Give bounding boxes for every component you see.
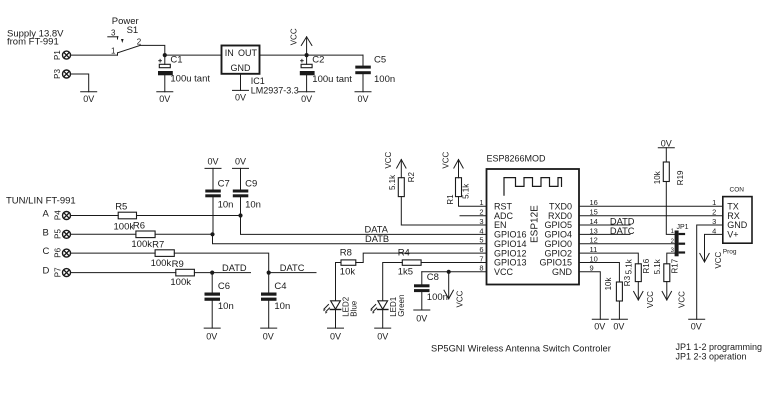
svg-text:0V: 0V [330,332,341,342]
junction A/C9 [238,213,242,217]
svg-text:10n: 10n [245,200,261,211]
wire JP1 pin3 to R17 [667,253,675,264]
LED2 Blue [323,296,358,328]
power flag VCC at ESP pin8 [444,272,465,308]
ground 0V at LED2 [328,328,344,342]
wire R19 to JP1 pin1 [666,182,674,235]
power flag 0V above C9 [233,156,249,189]
svg-text:1k5: 1k5 [398,267,413,278]
svg-text:10k: 10k [653,170,662,184]
svg-text:V+: V+ [727,230,738,240]
svg-text:GND: GND [552,267,573,277]
capacitor C4 10n [261,273,290,329]
svg-text:LM2937-3.3: LM2937-3.3 [251,85,299,95]
wire VCC to ESP pin8 [422,271,487,273]
svg-text:0V: 0V [357,94,368,104]
wire GPIO15 to R3 [579,263,619,283]
note Supply 13.8V from FT-991 [7,28,64,47]
resistor R8 10k [340,248,356,278]
capacitor C9 10n [233,178,261,210]
capacitor C7 10n [205,178,233,210]
svg-text:C5: C5 [374,55,386,66]
svg-text:5.1k: 5.1k [653,258,662,274]
svg-text:10k: 10k [340,267,356,278]
ground 0V at R3 [611,319,627,331]
svg-text:R2: R2 [407,172,416,183]
svg-text:C8: C8 [427,272,439,283]
wire ADC pin2 stub [460,215,487,217]
svg-text:0V: 0V [416,314,427,324]
svg-text:R3: R3 [623,275,632,286]
ground 0V at P3 [81,92,97,104]
wire net DATC stub [269,272,316,274]
wire R6 to node DATB jog [155,233,212,235]
svg-text:0V: 0V [661,138,672,148]
resistor R6 100k [131,221,155,251]
connector CON [712,186,752,255]
svg-text:VCC: VCC [646,291,655,308]
junction DATD/C6 [210,271,214,275]
wire R7 to DATC jog [174,253,268,273]
svg-text:C4: C4 [274,281,286,292]
svg-text:R8: R8 [340,248,352,259]
svg-text:0V: 0V [207,156,218,166]
svg-text:5.1k: 5.1k [462,183,471,199]
svg-text:R19: R19 [676,170,685,185]
svg-text:VCC: VCC [456,290,465,307]
svg-text:100k: 100k [131,239,152,250]
capacitor C8 100n [414,272,448,310]
svg-text:OUT: OUT [238,48,258,58]
wire CON GND to ground [697,225,723,319]
svg-text:5.1k: 5.1k [388,174,397,190]
junction VCC rail [305,53,309,57]
svg-text:VCC: VCC [494,267,514,277]
power flag VCC at R1 [441,151,463,177]
svg-text:2: 2 [712,208,716,217]
svg-text:0V: 0V [235,93,246,103]
resistor R16 5.1k [624,258,651,281]
resistor R5 100k [114,202,137,233]
svg-text:0V: 0V [83,94,94,104]
svg-text:DATC: DATC [610,226,635,236]
switch S1 [108,16,142,56]
svg-text:10k: 10k [604,277,613,291]
svg-text:C7: C7 [218,178,230,189]
wire IC1 OUT to C5 (3.3V rail) [260,54,364,56]
power flag VCC at R2 [384,151,406,177]
ground 0V at IC1 [233,90,249,102]
svg-text:10n: 10n [218,200,234,211]
ground 0V at C6 [204,328,220,342]
wire R8 to LED2 [336,263,342,301]
svg-text:1: 1 [712,198,716,207]
svg-text:P6: P6 [53,247,62,257]
svg-text:R9: R9 [172,259,184,270]
capacitor C1 100u tant [158,55,210,92]
connector P5 [53,229,70,239]
wire GPIO2 to R16 [579,253,638,264]
svg-text:C: C [43,246,50,257]
connector P7 [53,267,70,277]
power flag 0V above C7 [205,156,221,189]
svg-text:0V: 0V [301,94,312,104]
svg-text:VCC: VCC [714,251,723,268]
wire R4 to LED1 [383,263,403,301]
svg-text:100u tant: 100u tant [170,74,210,85]
wire P7 to R9 [71,272,176,274]
svg-text:0V: 0V [235,156,246,166]
resistor R2 5.1k [388,172,416,197]
svg-text:100k: 100k [151,258,172,269]
svg-text:0V: 0V [691,321,702,331]
svg-text:R1: R1 [446,194,455,205]
antenna meander [504,178,562,196]
wire jog down to DATB [213,234,487,243]
svg-text:100n: 100n [374,74,395,85]
junction node VIN [163,53,167,57]
wire R2 to EN pin3 [401,197,486,225]
svg-text:0V: 0V [263,332,274,342]
wire jog down to DATA [241,216,487,235]
svg-text:P1: P1 [53,50,62,60]
svg-text:1: 1 [111,46,116,55]
svg-text:VCC: VCC [441,151,450,168]
svg-text:S1: S1 [127,25,139,36]
svg-text:R16: R16 [642,258,651,273]
connector P6 [53,247,70,257]
wire C9 to line A [240,197,242,215]
power flag VCC below R16 [634,282,656,308]
svg-text:GND: GND [231,63,252,73]
junction B/C7 [210,232,214,236]
ground 0V at C1 [157,92,173,104]
svg-text:3: 3 [111,29,116,38]
jumper JP1 [671,224,689,256]
resistor R17 5.1k [653,258,680,281]
wire P3 to ground [71,74,89,92]
junction DATC/C4 [267,271,271,275]
svg-text:P5: P5 [53,229,62,239]
svg-text:JP1 2-3 operation: JP1 2-3 operation [676,351,747,361]
svg-text:P4: P4 [53,210,62,220]
ground 0V at C4 [261,328,277,342]
svg-text:R5: R5 [115,202,127,213]
wire R1 to RST pin1 [459,197,487,207]
svg-text:from FT-991: from FT-991 [7,37,59,48]
svg-text:R4: R4 [398,248,410,259]
ground 0V at C5 [355,92,371,104]
svg-text:0V: 0V [377,332,388,342]
svg-text:IN: IN [225,48,234,58]
svg-text:DATB: DATB [365,234,389,244]
svg-text:Blue: Blue [350,300,359,317]
wire GPIO0 to JP1 pin2 [579,243,675,245]
svg-text:0V: 0V [206,332,217,342]
ground 0V at ESP GND [592,319,608,331]
svg-text:P7: P7 [53,267,62,277]
svg-text:ESP12E: ESP12E [530,205,541,243]
wire IC1 GND to ground [240,74,242,91]
ground 0V at LED1 [375,328,391,342]
svg-text:TUN/LIN FT-991: TUN/LIN FT-991 [6,196,76,207]
svg-text:7: 7 [479,254,483,263]
wire GND pin9 to ground [579,272,600,319]
svg-text:A: A [43,209,50,220]
junction VCC/C8 [447,270,451,274]
resistor R1 5.1k [446,178,471,205]
wire P5 to R6 [71,233,136,235]
svg-text:Green: Green [397,295,406,317]
wire GPIO4 stub net DATC [579,233,630,235]
wire C7 to line B [212,197,214,234]
wire R9 to net DATD stub [194,272,250,274]
svg-text:R17: R17 [670,258,679,273]
connector P3 [53,69,71,79]
svg-text:100u tant: 100u tant [312,74,352,85]
wire R8 to GPIO14 [356,253,487,262]
svg-text:R6: R6 [133,221,145,232]
connector P1 [53,50,71,60]
svg-text:C6: C6 [218,281,230,292]
wire P6 to R7 [71,252,156,254]
wire S1 pin2 to node VIN [140,45,165,55]
capacitor C5 100n [355,55,395,92]
power flag 0V above R19 [658,138,674,162]
svg-text:JP1: JP1 [677,224,689,231]
wire node to IC1 IN [165,54,222,56]
svg-text:5.1k: 5.1k [624,258,633,274]
svg-text:DATD: DATD [222,263,247,273]
svg-text:4: 4 [479,226,483,235]
svg-text:0V: 0V [159,94,170,104]
svg-text:VCC: VCC [384,151,393,168]
wire RXD0 to CON pin2 [579,215,723,217]
ground 0V at CON [689,319,705,331]
power flag VCC below R17 [662,282,687,308]
svg-text:8: 8 [479,264,483,273]
capacitor C6 10n [205,273,234,329]
svg-text:0V: 0V [594,321,605,331]
svg-text:C9: C9 [245,178,257,189]
svg-text:VCC: VCC [678,291,687,308]
svg-text:R7: R7 [152,239,164,250]
svg-text:0V: 0V [613,321,624,331]
ground 0V at C2 [299,92,315,104]
svg-text:Prog: Prog [723,249,737,256]
wire R4 to GPIO12 [421,262,486,264]
svg-text:C1: C1 [170,55,182,66]
svg-text:100k: 100k [114,221,135,232]
svg-text:P3: P3 [53,69,62,79]
power flag VCC at CON V+ [700,234,723,268]
wire GPIO5 stub net DATD [579,224,630,226]
module U ESP8266MOD [479,153,598,284]
resistor R7 100k [151,239,175,269]
svg-text:SP5GNI Wireless Antenna Switch: SP5GNI Wireless Antenna Switch Controler [431,343,611,353]
wire P4 to R5 [71,215,119,217]
wire P1 to S1 pin1 [71,54,118,56]
svg-text:VCC: VCC [290,28,299,45]
wire TXD0 to CON pin1 [579,205,723,207]
svg-text:5: 5 [479,236,483,245]
svg-text:100k: 100k [170,277,191,288]
resistor R4 1k5 [398,248,421,278]
ground 0V at C8 [414,310,430,324]
svg-text:100n: 100n [427,292,448,303]
svg-text:DATC: DATC [280,263,305,273]
svg-text:C2: C2 [312,55,324,66]
svg-text:CON: CON [730,186,745,193]
capacitor C2 100u tant [300,55,352,92]
svg-text:B: B [43,227,49,238]
LED1 Green [370,295,405,329]
regulator IC1 LM2937-3.3 [222,46,299,96]
svg-text:JP1 1-2 programming: JP1 1-2 programming [676,342,763,352]
resistor R19 10k [653,162,685,185]
connector P4 [53,210,70,220]
svg-text:10n: 10n [218,301,234,312]
svg-text:10n: 10n [274,301,290,312]
svg-text:ESP8266MOD: ESP8266MOD [487,153,547,163]
svg-text:6: 6 [479,245,483,254]
resistor R3 10k [604,275,632,301]
wire R3 to ground [618,301,620,319]
svg-text:D: D [43,266,50,277]
resistor R9 100k [170,259,194,288]
wire R5 to node DATA jog [137,215,241,217]
power flag VCC (rail) [290,28,312,55]
